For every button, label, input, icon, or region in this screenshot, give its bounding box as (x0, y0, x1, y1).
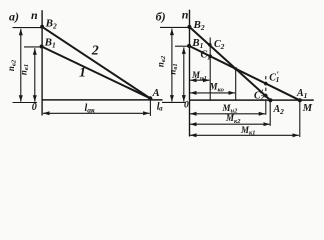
svg-text:Мко: Мко (209, 82, 225, 94)
svg-text:А: А (152, 88, 160, 99)
svg-text:пв1: пв1 (168, 63, 180, 74)
svg-text:В2: В2 (45, 18, 57, 31)
svg-text:0: 0 (184, 101, 189, 111)
svg-text:С2: С2 (214, 39, 225, 51)
svg-text:п: п (31, 8, 38, 22)
svg-text:С'2: С'2 (254, 88, 264, 102)
svg-text:А1: А1 (296, 88, 307, 100)
svg-text:А2: А2 (273, 104, 285, 116)
svg-text:М: М (302, 103, 313, 114)
svg-text:С'1: С'1 (269, 70, 279, 84)
svg-text:пв2: пв2 (6, 59, 18, 71)
svg-text:а): а) (9, 10, 19, 24)
svg-text:б): б) (156, 10, 166, 24)
svg-text:Мк2: Мк2 (225, 113, 241, 125)
svg-text:2: 2 (91, 43, 99, 58)
svg-text:С1: С1 (201, 50, 211, 62)
svg-text:пв2: пв2 (156, 55, 168, 67)
svg-text:1: 1 (79, 66, 86, 81)
svg-text:lак: lак (85, 103, 96, 115)
svg-text:п: п (182, 8, 189, 22)
svg-text:В2: В2 (193, 19, 205, 32)
svg-text:В1: В1 (44, 37, 56, 50)
svg-text:0: 0 (32, 102, 37, 113)
svg-text:lа: lа (157, 102, 163, 113)
svg-text:пв1: пв1 (19, 64, 31, 75)
